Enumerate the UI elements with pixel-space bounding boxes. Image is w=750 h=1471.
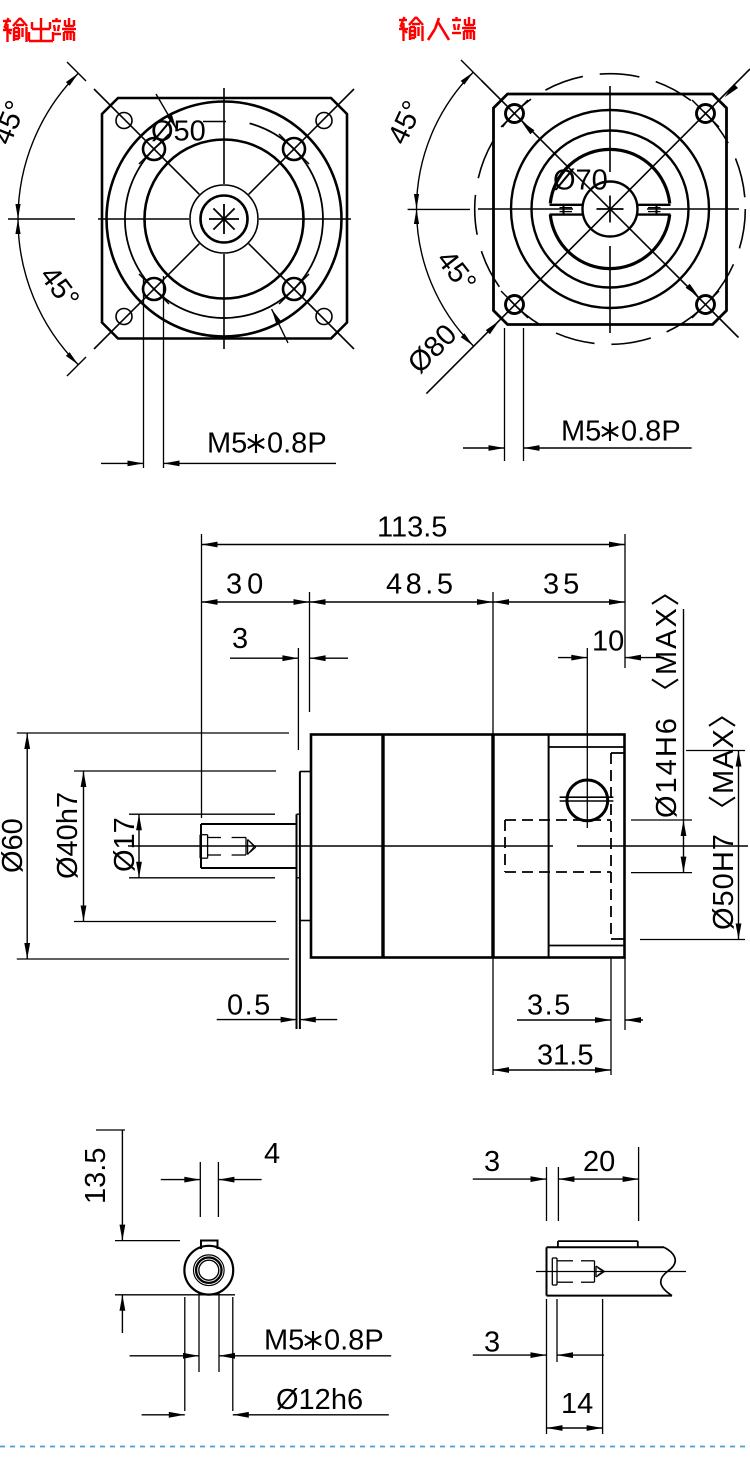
- svg-text:30: 30: [226, 569, 268, 601]
- input mounting hole: [506, 105, 524, 123]
- tapped hole input shaft: [551, 1258, 553, 1285]
- retaining washer: [296, 814, 298, 1029]
- svg-text:3.5: 3.5: [527, 990, 572, 1022]
- input flange square plate outline: [494, 94, 727, 325]
- svg-text:45°: 45°: [382, 96, 430, 149]
- input clamp slot right: [638, 204, 671, 206]
- output flange body circle: [107, 102, 342, 337]
- tapped hole in output shaft: [199, 835, 201, 859]
- svg-text:Ø80: Ø80: [402, 318, 463, 379]
- dimension M5x0.8P detail: [130, 1355, 199, 1357]
- mounting bolt hole M5: [143, 278, 165, 300]
- svg-text:14: 14: [561, 1388, 593, 1420]
- extension lines M5 detail: [198, 1292, 200, 1372]
- extension lines D12: [184, 1297, 186, 1411]
- svg-text:35: 35: [543, 569, 583, 601]
- thread extension lines output M5: [143, 276, 145, 468]
- output flange square plate outline: [102, 98, 347, 339]
- horizontal centerline input flange: [478, 208, 573, 210]
- red label output end (Chinese): [3, 20, 11, 22]
- angular dimension arc 45 upper-left: [18, 73, 78, 219]
- output shaft ring outer: [190, 185, 258, 253]
- blue dashed separator line: [0, 1446, 750, 1448]
- dimension 0.5 washer: [217, 1019, 297, 1021]
- dimension 3 bottom and 14: [546, 1299, 548, 1434]
- angular dim arc 45 input lower: [417, 209, 474, 346]
- diagonal centerline NW-SE: [94, 89, 199, 194]
- angular dim arc 45 input upper: [417, 72, 474, 209]
- gearbox body outline side view: [311, 735, 625, 958]
- corner hole: [116, 309, 132, 325]
- dimension D50H7 MAX: [686, 750, 745, 752]
- angular dimension arc 45 lower-left: [18, 219, 78, 365]
- input bolt circle D80 dashed: [475, 74, 746, 345]
- input clamp slot left: [550, 204, 583, 206]
- angular dimension extension ticks: [67, 62, 86, 81]
- key tab: [201, 1241, 218, 1250]
- output shaft bore circle: [201, 196, 248, 243]
- dimension D17: [129, 813, 275, 815]
- output shaft outline: [200, 824, 202, 868]
- dimension D50 leader and arrows: [156, 94, 176, 129]
- dimension D60: [17, 732, 289, 734]
- mounting bolt hole M5: [143, 138, 165, 160]
- input clamp ring circle: [550, 149, 669, 203]
- dimension D40h7: [74, 770, 276, 772]
- diagonal NE-SW input flange with D80 leader: [426, 69, 750, 394]
- svg-text:Ø40h7: Ø40h7: [52, 792, 84, 879]
- svg-text:Ø17: Ø17: [109, 817, 141, 872]
- svg-text:45°: 45°: [430, 244, 482, 298]
- mounting bolt hole M5: [283, 278, 305, 300]
- svg-text:M5: M5: [561, 416, 601, 448]
- dimension 3.5 recess: [610, 958, 612, 1075]
- dimension 3 and 20 top: [546, 1167, 548, 1221]
- svg-text:Ø12h6: Ø12h6: [276, 1384, 363, 1416]
- svg-text:Ø14H6 〈MAX〉: Ø14H6 〈MAX〉: [651, 575, 683, 818]
- input mounting hole: [697, 105, 715, 123]
- detail centerline: [536, 1271, 686, 1273]
- shaft section circle D12: [184, 1246, 233, 1295]
- svg-text:0.8P: 0.8P: [267, 428, 327, 460]
- input housing inner step lines: [549, 746, 625, 748]
- mounting bolt hole M5: [283, 138, 305, 160]
- svg-text:3: 3: [484, 1146, 500, 1178]
- output flange bolt circle D50: [125, 123, 323, 318]
- svg-text:13.5: 13.5: [80, 1148, 112, 1204]
- horizontal centerline of output flange: [98, 218, 189, 220]
- svg-text:20: 20: [583, 1146, 615, 1178]
- vertical centerline of output flange: [223, 88, 225, 184]
- dimension 4 key width: [199, 1162, 201, 1217]
- dimension 113.5: [202, 544, 626, 546]
- key on shaft: [558, 1240, 638, 1242]
- input recess walls: [611, 752, 625, 754]
- vertical centerline input flange: [609, 86, 611, 172]
- corner hole: [316, 113, 332, 129]
- svg-text:Ø70: Ø70: [553, 165, 608, 197]
- input bore circle: [583, 182, 638, 237]
- input shaft side outline: [546, 1247, 548, 1295]
- svg-text:Ø60: Ø60: [0, 818, 29, 873]
- pilot boss edges: [300, 771, 311, 773]
- svg-text:4: 4: [264, 1138, 280, 1170]
- svg-text:0.8P: 0.8P: [621, 416, 681, 448]
- dimension 13.5: [96, 1129, 125, 1131]
- angular dim ticks input: [461, 60, 482, 81]
- input center star: [597, 208, 624, 210]
- dimension row 30 48.5 35: [202, 601, 626, 603]
- svg-text:3: 3: [484, 1327, 500, 1359]
- output shaft center star: [209, 218, 239, 220]
- corner hole: [116, 113, 132, 129]
- clamp screw circle: [567, 780, 608, 821]
- side view main centerline: [128, 845, 553, 847]
- stage joint line 1: [381, 735, 384, 958]
- svg-text:113.5: 113.5: [377, 512, 447, 544]
- dimension 10 screw: [558, 657, 587, 659]
- svg-text:10: 10: [592, 626, 624, 658]
- clamp screw centerline: [586, 648, 588, 828]
- svg-text:3: 3: [232, 623, 248, 655]
- svg-text:45°: 45°: [33, 260, 85, 314]
- svg-text:31.5: 31.5: [537, 1040, 593, 1072]
- diagonal NW-SE input flange with D70 arrows: [482, 81, 739, 338]
- input housing face line: [548, 735, 550, 958]
- dimension D12h6: [142, 1414, 185, 1416]
- red label input end (Chinese): [399, 19, 407, 21]
- input bore D14 hidden lines: [505, 819, 611, 821]
- svg-text:0.8P: 0.8P: [324, 1325, 384, 1357]
- dimension line M5x0.8P output: [101, 462, 144, 464]
- input mounting hole: [506, 296, 524, 314]
- break line: [661, 1247, 676, 1295]
- thread extension lines input M5: [504, 328, 506, 461]
- shaft section thread rings: [196, 1258, 221, 1283]
- diagonal centerline NE-SW: [249, 89, 354, 194]
- extension lines top dims: [201, 534, 203, 818]
- input recess bottom dashed: [610, 753, 612, 939]
- clamp screw slot lines: [560, 796, 614, 798]
- svg-text:M5: M5: [207, 428, 247, 460]
- svg-text:Ø50H7 〈MAX〉: Ø50H7 〈MAX〉: [708, 698, 740, 930]
- svg-text:45°: 45°: [0, 96, 33, 149]
- svg-text:48.5: 48.5: [386, 569, 456, 601]
- corner hole: [316, 309, 332, 325]
- dimension line M5x0.8P input: [463, 447, 505, 449]
- stage joint line 2: [491, 735, 494, 958]
- svg-text:0.5: 0.5: [227, 990, 272, 1022]
- svg-text:M5: M5: [264, 1325, 304, 1357]
- output flange inner circle: [145, 140, 304, 299]
- input mounting hole: [697, 296, 715, 314]
- input pilot circle inner: [532, 131, 689, 288]
- dimension 31.5: [492, 958, 494, 1075]
- dimension 3 boss: [297, 648, 299, 750]
- dimension D14H6 MAX: [631, 819, 692, 821]
- input pilot circle outer: [511, 110, 709, 308]
- svg-text:Ø50: Ø50: [151, 116, 206, 148]
